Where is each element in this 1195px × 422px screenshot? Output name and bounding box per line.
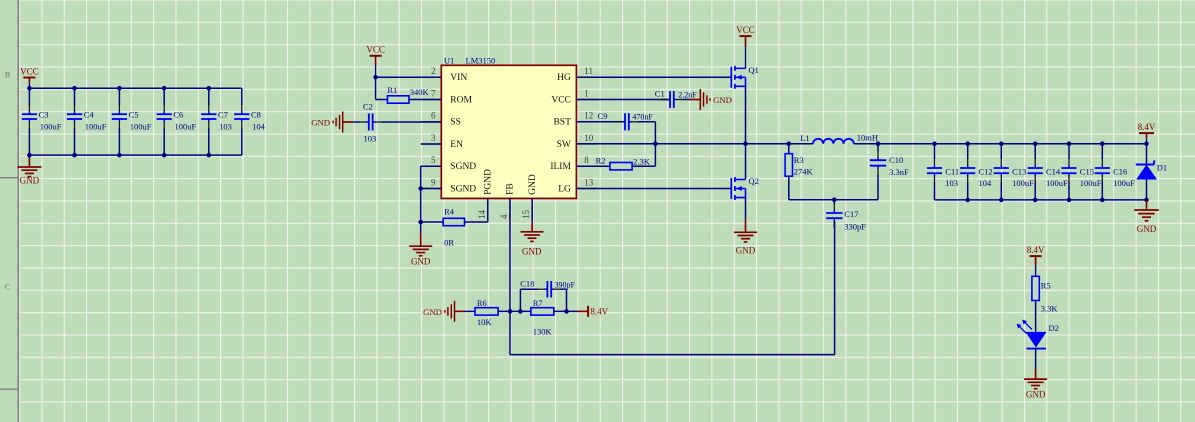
wire VCC to R1: [375, 77, 377, 99]
svg-text:C12: C12: [979, 166, 993, 176]
sheet border line: [17, 0, 19, 422]
resistor R5 3.3K: [1032, 276, 1039, 300]
svg-text:1: 1: [584, 88, 589, 98]
svg-text:104: 104: [979, 178, 993, 188]
svg-text:6: 6: [431, 111, 436, 121]
ground (R4/SGND): [420, 233, 422, 246]
junction C18 left: [518, 309, 523, 314]
svg-text:VIN: VIN: [450, 73, 467, 83]
svg-text:GND: GND: [713, 95, 732, 105]
resistor R7 130K: [531, 308, 554, 315]
power port 8.4V (LED): [1027, 245, 1045, 276]
junction C16 bottom: [1100, 198, 1105, 203]
svg-text:VCC: VCC: [366, 45, 385, 55]
capacitor C2 103: [353, 113, 441, 130]
svg-text:14: 14: [477, 210, 487, 220]
svg-text:4: 4: [499, 214, 509, 219]
svg-text:BST: BST: [553, 118, 571, 128]
svg-text:C: C: [5, 283, 10, 292]
power port VCC (U1): [366, 45, 385, 78]
wire LG to Q2 gate: [576, 188, 731, 190]
diode D2 LED: [1017, 320, 1047, 349]
junction C17 on rail: [832, 197, 837, 202]
svg-text:C6: C6: [173, 110, 183, 120]
resistor R4 0R: [443, 218, 464, 225]
svg-text:100uF: 100uF: [40, 121, 62, 131]
wire GND to C2: [342, 121, 353, 123]
svg-text:ILIM: ILIM: [550, 162, 571, 172]
junction C15 top: [1067, 141, 1072, 146]
svg-text:R6: R6: [477, 298, 487, 308]
ground (output): [1146, 200, 1148, 210]
resistor R1 340K: [387, 96, 409, 103]
svg-text:VCC: VCC: [551, 95, 571, 105]
svg-text:100uF: 100uF: [130, 121, 152, 131]
junction C5 top: [117, 86, 122, 91]
U1 pin stubs: [421, 76, 441, 78]
svg-text:LM3150: LM3150: [466, 55, 496, 65]
svg-text:12: 12: [584, 111, 593, 121]
svg-text:FB: FB: [506, 183, 516, 195]
svg-text:3.3K: 3.3K: [1041, 303, 1059, 313]
power port 8.4V (output): [1138, 122, 1156, 144]
wire R7 right: [554, 310, 578, 312]
power port VCC (input): [20, 66, 39, 88]
junction C7 bottom: [207, 153, 212, 158]
junction C4 bottom: [72, 153, 77, 158]
capacitor C10 3.3nF: [870, 144, 886, 200]
power port 8.4V (feedback): [578, 310, 588, 312]
capacitor C5 100uF: [112, 88, 127, 155]
capacitor C7 103: [201, 88, 216, 155]
svg-text:470nF: 470nF: [632, 113, 653, 122]
capacitor C13 100uF: [994, 144, 1009, 200]
wire input bottom bus: [29, 154, 241, 156]
wire GND pin15 stub: [531, 198, 533, 222]
junction C13 bottom: [999, 198, 1004, 203]
svg-text:3: 3: [431, 133, 436, 143]
capacitor C6 100uF: [157, 88, 172, 155]
svg-text:8.4V: 8.4V: [1027, 245, 1045, 255]
svg-text:100uF: 100uF: [175, 121, 197, 131]
wire Q2 drain to SW: [745, 144, 747, 180]
svg-text:C1: C1: [655, 89, 665, 99]
svg-text:U1: U1: [444, 55, 454, 65]
wire input top bus: [29, 87, 241, 89]
wire Q1 source to SW: [745, 86, 747, 143]
junction SGND9: [418, 186, 423, 191]
svg-text:100uF: 100uF: [1113, 178, 1135, 188]
wire GND to R6: [465, 310, 476, 312]
capacitor C8 104: [234, 88, 249, 155]
junction C12 top: [965, 141, 970, 146]
svg-text:C11: C11: [945, 166, 959, 176]
svg-text:103: 103: [945, 178, 958, 188]
sheet row divider C/D: [0, 388, 18, 390]
wire R3 bottom: [788, 176, 790, 200]
capacitor C18 390pF: [519, 289, 521, 311]
capacitor C15 100uF: [1061, 144, 1076, 200]
junction C9/R2 on SW: [653, 141, 658, 146]
svg-text:C10: C10: [889, 155, 903, 165]
svg-text:PGND: PGND: [483, 169, 493, 195]
junction C18 right: [564, 309, 569, 314]
svg-text:GND: GND: [411, 256, 431, 266]
junction output 8.4V: [1144, 141, 1149, 146]
svg-text:B: B: [5, 70, 10, 79]
junction D1 bottom: [1144, 198, 1149, 203]
svg-text:C13: C13: [1012, 166, 1026, 176]
sheet row divider B/C: [0, 177, 18, 179]
svg-text:130K: 130K: [533, 327, 553, 337]
junction C12 bottom: [965, 198, 970, 203]
wire Q2 source to GND: [745, 198, 747, 221]
capacitor C3 100uF: [22, 88, 37, 155]
wire R5 to D2: [1035, 301, 1037, 332]
wire R4 to PGND pin14: [465, 221, 488, 223]
diode D1: [1146, 144, 1148, 165]
wire FB vertical: [509, 198, 511, 354]
svg-text:0R: 0R: [444, 238, 454, 248]
svg-text:EN: EN: [450, 140, 463, 150]
wire R2 right: [632, 165, 655, 167]
svg-text:LG: LG: [558, 184, 571, 194]
svg-text:2.2nF: 2.2nF: [678, 90, 697, 99]
svg-text:C4: C4: [84, 110, 95, 120]
wire HG to Q1 gate: [576, 76, 731, 78]
svg-text:L1: L1: [800, 133, 809, 143]
svg-text:R2: R2: [596, 156, 606, 166]
svg-text:10: 10: [584, 133, 594, 143]
junction C11 top: [932, 141, 937, 146]
svg-text:390pF: 390pF: [555, 280, 576, 289]
svg-text:C3: C3: [39, 110, 49, 120]
resistor R3 274K: [788, 144, 790, 154]
wire R3/C10 bottom rail: [789, 199, 878, 201]
pin stub EN: [421, 143, 441, 145]
wire Q1 drain: [745, 67, 747, 69]
wire SGND vertical: [421, 165, 442, 167]
junction R4 left: [418, 220, 423, 225]
svg-text:ROM: ROM: [450, 95, 472, 105]
svg-text:15: 15: [521, 210, 531, 220]
svg-text:GND: GND: [423, 307, 442, 317]
svg-text:340K: 340K: [410, 87, 430, 97]
junction Q1/Q2 on SW: [743, 141, 748, 146]
junction C14 top: [1033, 141, 1038, 146]
svg-text:100uF: 100uF: [85, 121, 107, 131]
junction C5 bottom: [117, 153, 122, 158]
wire output bottom bus: [935, 199, 1147, 201]
svg-text:104: 104: [252, 121, 266, 131]
junction C15 bottom: [1067, 198, 1072, 203]
svg-text:GND: GND: [1137, 224, 1157, 234]
svg-text:103: 103: [219, 121, 232, 131]
svg-text:C9: C9: [598, 111, 608, 121]
svg-text:5: 5: [431, 155, 436, 165]
junction C10 on SW: [876, 141, 881, 146]
junction C6 top: [162, 86, 167, 91]
svg-text:C15: C15: [1080, 166, 1094, 176]
junction FB node: [508, 309, 513, 314]
svg-text:GND: GND: [736, 246, 756, 256]
junction C7 top: [207, 86, 212, 91]
svg-text:SW: SW: [557, 140, 571, 150]
wire FB horizontal to C17: [510, 354, 835, 356]
capacitor C17 330pF: [826, 200, 842, 229]
inductor L1 10mH: [813, 139, 854, 144]
capacitor C4 100uF: [67, 88, 82, 155]
wire D2 to GND: [1035, 349, 1037, 369]
svg-text:D2: D2: [1049, 323, 1059, 333]
svg-text:100uF: 100uF: [1012, 178, 1034, 188]
capacitor C1 2.2nF: [660, 91, 690, 108]
svg-text:103: 103: [364, 134, 377, 144]
ground port (R6): [423, 301, 454, 322]
svg-text:GND: GND: [1026, 389, 1046, 399]
ground (pin 15): [531, 222, 533, 231]
junction VCC/VIN/R1: [373, 75, 378, 80]
svg-text:Q2: Q2: [749, 176, 759, 186]
svg-text:274K: 274K: [794, 167, 814, 177]
junction C13 top: [999, 141, 1004, 146]
svg-text:GND: GND: [20, 175, 40, 185]
svg-text:C18: C18: [520, 278, 534, 288]
wire SW main: [576, 143, 813, 145]
svg-text:Q1: Q1: [749, 65, 759, 75]
wire R4 row: [421, 221, 444, 223]
svg-text:GND: GND: [528, 174, 538, 195]
svg-text:R5: R5: [1041, 280, 1051, 290]
transistor Q2: [731, 176, 759, 200]
svg-text:C16: C16: [1113, 166, 1127, 176]
svg-text:10K: 10K: [477, 317, 493, 327]
svg-text:C5: C5: [129, 110, 139, 120]
svg-text:C17: C17: [844, 209, 858, 219]
svg-text:7: 7: [431, 88, 436, 98]
wire VIN: [376, 76, 442, 78]
svg-text:R1: R1: [387, 85, 397, 95]
junction R3 on SW: [787, 141, 792, 146]
transistor Q1: [731, 65, 759, 89]
svg-text:R3: R3: [794, 155, 804, 165]
svg-text:VCC: VCC: [20, 66, 39, 76]
wire VCC pin1 to C1: [576, 99, 669, 101]
svg-text:13: 13: [584, 177, 594, 187]
junction C4 top: [72, 86, 77, 91]
svg-text:C8: C8: [251, 110, 261, 120]
svg-text:9: 9: [431, 177, 436, 187]
svg-text:SGND: SGND: [450, 162, 476, 172]
svg-text:C14: C14: [1046, 166, 1061, 176]
ground port (SS/C2): [311, 112, 343, 133]
svg-text:100uF: 100uF: [1046, 178, 1068, 188]
capacitor C14 100uF: [1028, 144, 1043, 200]
wire R1 to ROM: [409, 99, 441, 101]
svg-text:SGND: SGND: [450, 184, 476, 194]
svg-text:GND: GND: [311, 117, 330, 127]
power port VCC (Q1): [736, 25, 755, 68]
svg-text:GND: GND: [522, 247, 542, 257]
node junction C3 bottom: [27, 153, 32, 158]
capacitor C12 104: [960, 144, 975, 200]
capacitor C9 470nF: [615, 113, 655, 130]
wire C17 riser: [834, 222, 836, 355]
wire BST to C9: [576, 121, 623, 123]
svg-text:2: 2: [431, 66, 436, 76]
ground (input bank): [28, 155, 30, 158]
svg-text:C2: C2: [363, 102, 373, 112]
svg-text:8.4V: 8.4V: [1138, 122, 1156, 132]
svg-text:8: 8: [584, 155, 589, 165]
node junction VCC/C3 top: [27, 86, 32, 91]
svg-text:D1: D1: [1157, 163, 1167, 173]
junction C6 bottom: [162, 153, 167, 158]
svg-text:10mH: 10mH: [857, 132, 878, 142]
svg-text:330pF: 330pF: [844, 221, 866, 231]
svg-text:SS: SS: [450, 118, 461, 128]
capacitor C11 103: [927, 144, 942, 200]
svg-text:2.3K: 2.3K: [633, 156, 651, 166]
svg-text:3.3nF: 3.3nF: [889, 167, 909, 177]
ground (LED): [1024, 379, 1047, 399]
ground (Q2): [734, 232, 757, 255]
svg-text:VCC: VCC: [736, 25, 755, 35]
svg-text:8.4V: 8.4V: [590, 306, 608, 316]
svg-text:C7: C7: [218, 110, 228, 120]
wire D1 to bottom bus: [1146, 180, 1148, 200]
svg-text:HG: HG: [557, 73, 571, 83]
wire R6 to R7: [498, 310, 531, 312]
svg-text:R7: R7: [533, 298, 543, 308]
junction C16 top: [1100, 141, 1105, 146]
capacitor C16 100uF: [1095, 144, 1110, 200]
svg-text:100uF: 100uF: [1080, 178, 1102, 188]
op-amp U1 LM3150 body: [441, 65, 576, 198]
junction C14 bottom: [1033, 198, 1038, 203]
svg-text:11: 11: [584, 66, 593, 76]
wire ILIM to R2: [576, 165, 610, 167]
resistor R2 2.3K: [610, 163, 632, 170]
wire C9/R2 vertical to SW: [654, 122, 656, 166]
resistor R6 10K: [475, 308, 498, 315]
svg-text:R4: R4: [444, 207, 455, 217]
ground port (C1): [690, 99, 701, 101]
